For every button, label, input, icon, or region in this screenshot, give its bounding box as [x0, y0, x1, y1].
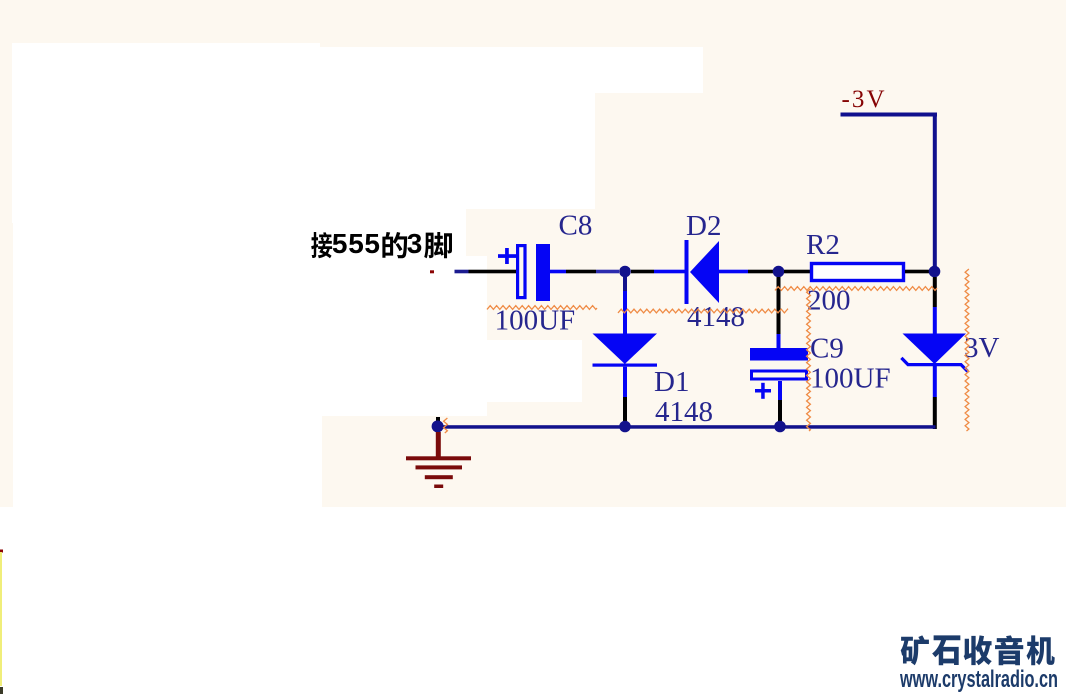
wire: C8 to node A [550, 270, 619, 274]
svg-text:-3V: -3V [842, 86, 885, 113]
marker zigzag vertical right of zener [965, 269, 969, 431]
svg-text:5: 5 [348, 228, 364, 259]
wire: node A down to D1 [623, 277, 627, 334]
wire: D1 to ground rail [623, 367, 627, 422]
zener diode 3V [903, 334, 967, 371]
junction dot C9/ground rail [774, 421, 786, 433]
svg-text:4148: 4148 [655, 396, 713, 428]
junction dot D1/ground rail [619, 421, 631, 433]
svg-text:C8: C8 [559, 210, 593, 242]
wire: node C down to zener DZ [933, 277, 937, 334]
diode D2 [685, 240, 720, 304]
svg-text:C9: C9 [810, 333, 844, 365]
marker zigzag at ground junction [444, 418, 448, 433]
artifact: yellow line left edge [0, 552, 2, 686]
marker zigzag under R2 [775, 287, 937, 291]
artifact: red dot left edge [0, 550, 3, 553]
ground [406, 432, 471, 488]
node B junction dot [773, 266, 785, 278]
svg-text:www.crystalradio.cn: www.crystalradio.cn [899, 666, 1058, 693]
wire: node B down to C9 [777, 277, 781, 348]
label: 接555的3脚 (connect to 555 pin 3) [311, 228, 452, 259]
svg-text:5: 5 [364, 228, 380, 259]
svg-text:R2: R2 [806, 229, 840, 261]
svg-text:D1: D1 [654, 366, 689, 398]
marker zigzag vertical at C9 [807, 289, 811, 431]
resistor R2 [812, 264, 904, 281]
artifact: dark dash left edge [0, 687, 3, 694]
wire: node B to R2 [784, 270, 810, 274]
junction dot at ground symbol [432, 417, 444, 432]
marker zigzag under D2 [618, 309, 788, 313]
node C junction dot [929, 266, 941, 278]
node A junction dot [619, 266, 631, 278]
wire: node A to D2 [631, 270, 687, 274]
svg-text:4148: 4148 [687, 301, 745, 333]
svg-text:D2: D2 [686, 210, 721, 242]
wire: input to C8 [455, 270, 517, 274]
svg-text:3V: 3V [964, 332, 1000, 364]
wire: ground rail (bottom) [437, 425, 936, 429]
watermark logo 矿石收音机 [901, 635, 1055, 665]
wire: -3V rail [841, 113, 938, 272]
wire: R2 to node C [905, 270, 929, 274]
diode D1 [593, 334, 658, 367]
wire: zener to ground rail corner [933, 366, 937, 429]
svg-text:5: 5 [332, 228, 348, 259]
svg-text:3: 3 [407, 228, 423, 259]
net stub (red dash) at input [430, 270, 434, 273]
svg-text:100UF: 100UF [810, 363, 891, 395]
capacitor C8 [498, 244, 550, 301]
capacitor C9 [750, 348, 808, 399]
wire: C9 to ground rail [778, 381, 782, 422]
wire: D2 to node B [719, 270, 773, 274]
marker zigzag under C8 [487, 306, 597, 310]
